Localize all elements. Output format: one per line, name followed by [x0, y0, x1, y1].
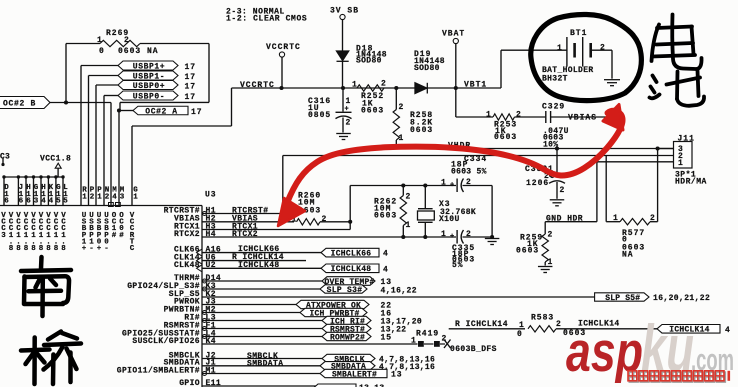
svg-text:0603 5%: 0603 5%	[451, 168, 487, 177]
wire	[426, 83, 428, 94]
svg-text:NA: NA	[622, 251, 634, 260]
svg-text:asp: asp	[566, 320, 643, 384]
wire R577.1 drop	[605, 156, 607, 222]
wire	[202, 343, 418, 345]
net flag SMBDATA	[320, 362, 375, 370]
wire	[424, 343, 434, 345]
wire SLP_S5 long wire	[202, 296, 595, 298]
svg-text:VCC1.8: VCC1.8	[61, 212, 66, 253]
svg-text:R583: R583	[531, 314, 554, 323]
wire	[395, 88, 397, 110]
junction	[454, 86, 458, 90]
svg-text:0603 NA: 0603 NA	[118, 47, 159, 56]
svg-text:R1: R1	[82, 187, 87, 202]
wire USBP0+ to chip	[95, 85, 97, 206]
power symbol VCCRTC	[279, 52, 284, 57]
wire USBP0- to chip	[103, 96, 105, 206]
wire	[418, 208, 433, 210]
wire	[658, 148, 674, 150]
net flag ATXPOWER_OK	[296, 300, 369, 308]
wire	[202, 229, 350, 231]
wire	[342, 118, 344, 133]
wire J11 pin1 wire	[597, 161, 674, 163]
svg-text:GPIO11/SMBALERT#: GPIO11/SMBALERT#	[117, 366, 200, 375]
resistor R258	[393, 110, 399, 141]
wire R577.2 riser	[657, 149, 659, 222]
bus junction	[47, 175, 50, 178]
svg-text:VCCRTC: VCCRTC	[130, 212, 135, 253]
wire GND_HDR wire	[545, 221, 597, 223]
svg-text:R269: R269	[106, 29, 129, 38]
wire	[202, 280, 322, 282]
wire	[463, 236, 493, 238]
resistor R583	[528, 326, 556, 332]
svg-text:J16: J16	[19, 184, 24, 206]
svg-text:GPIO: GPIO	[179, 379, 200, 387]
svg-text:M3: M3	[120, 187, 125, 202]
wire	[456, 230, 458, 244]
wire VCC1.8 pin drop	[62, 177, 64, 206]
svg-text:2: 2	[322, 215, 328, 224]
svg-text:2: 2	[548, 231, 554, 240]
diode D19	[415, 83, 427, 94]
svg-text:R ICHCLK14: R ICHCLK14	[455, 320, 508, 329]
svg-text:C3: C3	[0, 153, 10, 162]
net flag SMBALERT#	[320, 369, 387, 377]
wire	[202, 252, 321, 254]
junction	[401, 183, 405, 187]
diode D18	[337, 51, 349, 61]
wire RTCRST# riser	[282, 156, 284, 214]
svg-text:VBAT: VBAT	[442, 30, 465, 39]
wire	[202, 221, 294, 223]
wire	[596, 162, 598, 222]
wire USBP0- wire	[104, 95, 118, 97]
wire	[606, 221, 620, 223]
wire	[545, 111, 547, 123]
wire	[120, 101, 209, 103]
wire VHDR rail	[396, 148, 673, 150]
wire	[119, 102, 121, 110]
svg-text:BT1: BT1	[570, 29, 587, 38]
wire	[202, 213, 283, 215]
wire RTCX1 riser	[349, 186, 351, 230]
svg-text:1: 1	[557, 44, 563, 53]
junction	[423, 235, 427, 239]
junction	[401, 235, 405, 239]
svg-text:VCC1.8: VCC1.8	[40, 155, 71, 164]
svg-text:16,20,21,22: 16,20,21,22	[653, 294, 710, 303]
wire	[544, 222, 546, 234]
svg-text:RTCX2: RTCX2	[174, 230, 200, 239]
wire	[395, 140, 397, 149]
resistor R269	[100, 40, 140, 46]
red annotation curve with arrowheads	[287, 111, 623, 203]
svg-text:4: 4	[383, 265, 389, 274]
svg-text:1: 1	[441, 230, 447, 239]
svg-text:13: 13	[391, 371, 403, 380]
wire	[556, 182, 558, 199]
wire OC#2_A to pin M3	[118, 111, 120, 206]
svg-text:R260: R260	[298, 192, 321, 201]
wire	[281, 57, 283, 88]
svg-text:17: 17	[185, 82, 197, 91]
svg-text:U3: U3	[205, 191, 217, 200]
net flag ICHCLK66	[321, 248, 379, 257]
bus junction	[2, 175, 5, 178]
svg-text:USBP1-: USBP1-	[89, 212, 94, 253]
wire	[202, 336, 322, 338]
svg-text:D16: D16	[4, 184, 9, 206]
svg-text:15: 15	[381, 333, 393, 342]
net flag USBP0+	[118, 81, 178, 90]
wire	[337, 60, 349, 62]
wire	[140, 43, 209, 45]
svg-text:G13: G13	[34, 184, 39, 206]
wire	[544, 262, 546, 266]
ground R259	[538, 266, 553, 268]
watermark aspku.com	[566, 311, 734, 385]
ground C316	[336, 133, 351, 135]
svg-text:X10U: X10U	[439, 215, 460, 224]
svg-text:VCC1.8: VCC1.8	[54, 212, 59, 253]
svg-text:SLP S3#: SLP S3#	[327, 286, 363, 295]
svg-text:VBT1: VBT1	[464, 81, 487, 90]
svg-text:H16: H16	[26, 184, 31, 206]
svg-text:P2: P2	[90, 187, 95, 202]
net flag SMBCLK	[322, 354, 375, 362]
resistor R259	[542, 234, 548, 262]
svg-text:ROMWP2#: ROMWP2#	[330, 333, 365, 342]
svg-text:2: 2	[600, 44, 606, 53]
junction	[1, 163, 4, 166]
net flag ICHCLK14	[657, 325, 720, 334]
watermark chinese tagline (drawn blocks)	[629, 372, 725, 382]
net flag OC#2_A	[133, 106, 188, 115]
wire	[342, 61, 344, 88]
svg-text:M4: M4	[112, 187, 117, 202]
svg-text:SOD80: SOD80	[356, 57, 382, 66]
wire	[202, 328, 322, 330]
svg-text:VBIAS: VBIAS	[568, 114, 597, 123]
svg-text:4: 4	[383, 250, 389, 259]
wire	[556, 328, 657, 330]
resistor R260	[297, 219, 321, 225]
svg-text:0603: 0603	[516, 246, 539, 255]
wire U3 right edge	[201, 206, 203, 387]
net flag ROMWP2#	[322, 332, 371, 340]
wire VCC1.8 pin drop	[55, 177, 57, 206]
svg-text:USBP0+: USBP0+	[133, 82, 165, 91]
wire	[208, 44, 210, 103]
wire	[449, 328, 525, 330]
bus junction	[54, 175, 57, 178]
svg-text:G1: G1	[133, 187, 138, 202]
wire	[402, 186, 404, 196]
svg-text:0603B_DFS: 0603B_DFS	[450, 345, 497, 354]
wire RTCX2 / crystal bottom rail	[202, 236, 456, 238]
svg-text:1: 1	[548, 258, 554, 267]
svg-text:OC0#: OC0#	[119, 212, 124, 240]
bus junction	[17, 175, 20, 178]
wire	[202, 365, 320, 367]
hand-written character 桥 (bridge)	[21, 332, 81, 385]
net flag USBP1-	[118, 71, 178, 80]
wire	[424, 222, 426, 237]
svg-text:VCC1.8: VCC1.8	[24, 212, 29, 253]
wire VCC1.8 pin drop	[25, 177, 27, 206]
net flag ICHCLK48	[321, 264, 379, 273]
svg-text:VCC1.8: VCC1.8	[16, 212, 21, 253]
svg-text:SUSCLK/GPIO26: SUSCLK/GPIO26	[132, 337, 200, 346]
wire	[463, 185, 493, 187]
wire	[440, 343, 445, 345]
wire	[402, 226, 404, 238]
svg-text:1: 1	[486, 110, 492, 119]
net flag SLP_S5#	[595, 293, 649, 301]
svg-text:VCC1.8: VCC1.8	[9, 212, 14, 253]
svg-text:ICHCLK66: ICHCLK66	[331, 250, 372, 259]
wire crystal gnd riser	[491, 186, 493, 238]
svg-text:VCC3: VCC3	[1, 212, 6, 240]
hand-written character 南 (south)	[21, 257, 71, 316]
wire	[591, 49, 612, 51]
partial flag bottom edge	[314, 384, 356, 387]
net flag OC#2_B	[0, 97, 50, 109]
wire	[202, 267, 321, 269]
wire	[57, 168, 59, 177]
wire VCC1.8 pin drop	[17, 177, 19, 206]
svg-text:2: 2	[346, 119, 352, 128]
svg-text:1: 1	[399, 134, 405, 143]
wire	[418, 221, 433, 223]
resistor R577	[620, 219, 650, 225]
svg-text:1: 1	[352, 81, 358, 90]
svg-text:G15: G15	[56, 184, 61, 206]
wire to battery pin1	[501, 49, 567, 51]
wire	[573, 43, 576, 58]
svg-text:0: 0	[99, 47, 105, 56]
svg-text:SLP S5#: SLP S5#	[605, 294, 640, 303]
net flag USBP0-	[118, 91, 178, 100]
svg-text:0603: 0603	[361, 107, 384, 116]
net flag SLP_S3#	[320, 285, 367, 293]
red arrowhead lower-left	[278, 198, 305, 226]
junction	[490, 235, 494, 239]
wire VCC1.8 pin drop	[40, 177, 42, 206]
svg-text:0603: 0603	[374, 211, 397, 220]
svg-text:HDR/MA: HDR/MA	[675, 178, 707, 187]
svg-text:H14: H14	[41, 184, 46, 206]
bus junction	[61, 175, 64, 178]
wire	[456, 179, 458, 193]
power symbol 3V_SB	[340, 14, 345, 19]
svg-text:VCC1.8: VCC1.8	[46, 212, 51, 253]
wire	[456, 116, 493, 118]
junction	[64, 100, 68, 104]
wire	[2, 158, 4, 165]
svg-text:P1: P1	[97, 187, 102, 202]
svg-text:USBP1+: USBP1+	[82, 212, 87, 253]
svg-text:17: 17	[185, 73, 197, 82]
wire VCCRTC to pin G1	[131, 126, 133, 206]
svg-text:2: 2	[516, 110, 522, 119]
wire USBP1- to chip	[88, 76, 90, 206]
hand-written character 池 (pool)	[650, 71, 705, 106]
wire	[202, 304, 296, 306]
svg-text:USBP0-: USBP0-	[104, 212, 109, 253]
bus junction	[39, 175, 42, 178]
svg-text:1: 1	[441, 178, 447, 187]
resistor R262	[400, 196, 406, 226]
wire VCCRTC/VBT1 rail	[232, 87, 502, 89]
svg-text:VCC1.8: VCC1.8	[39, 212, 44, 253]
svg-text:SOD80: SOD80	[414, 64, 440, 73]
wire	[202, 385, 318, 387]
power symbol VBAT	[453, 38, 458, 43]
svg-text:2: 2	[381, 80, 387, 89]
wire	[202, 312, 300, 314]
svg-text:3V SB: 3V SB	[330, 7, 359, 16]
wire	[202, 288, 320, 290]
svg-text:2: 2	[560, 186, 566, 195]
resistor R252	[357, 85, 384, 91]
wire USBP1+ wire	[81, 65, 118, 67]
svg-text:R419: R419	[416, 330, 439, 339]
svg-text:+: +	[450, 233, 455, 241]
pin squares	[109, 203, 114, 207]
wire	[231, 88, 233, 126]
wire VCC1.8 bus	[4, 176, 63, 178]
wire	[202, 373, 320, 375]
wire	[582, 37, 584, 67]
power symbol VCC1.8	[55, 163, 61, 168]
svg-text:OC#2 A: OC#2 A	[145, 107, 177, 116]
hand-drawn black circle around battery	[531, 14, 642, 100]
svg-text:4: 4	[725, 326, 731, 335]
svg-text:1: 1	[406, 221, 412, 230]
hand-written character 电 (battery)	[652, 15, 702, 70]
svg-text:0603: 0603	[410, 126, 433, 135]
wire OC#2_B to pin M4	[110, 103, 112, 206]
svg-text:1: 1	[678, 159, 684, 168]
svg-text:USBP0+: USBP0+	[97, 212, 102, 253]
ground C330	[550, 199, 565, 201]
resistor R253	[493, 114, 515, 120]
svg-text:2: 2	[556, 320, 562, 329]
svg-text:BH32T: BH32T	[542, 74, 568, 83]
svg-text:N2: N2	[105, 187, 110, 202]
wire VCC1.8 pin drop	[3, 177, 5, 206]
wire VCC1.8 pin drop	[47, 177, 49, 206]
ground battery	[604, 79, 620, 81]
wire	[350, 185, 456, 187]
net flag ICH_RI#	[322, 316, 371, 324]
svg-text:L15: L15	[63, 184, 68, 206]
svg-text:0: 0	[517, 330, 523, 339]
svg-text:17: 17	[185, 63, 197, 72]
svg-text:17: 17	[191, 108, 203, 117]
junction	[117, 108, 121, 112]
net flag RSMRST#	[322, 324, 371, 332]
net flag OVER_TEMP#	[322, 277, 375, 286]
X no-stuff mark	[444, 340, 451, 349]
svg-text:OC#2 B: OC#2 B	[3, 100, 36, 109]
net flag USBP1+	[118, 61, 178, 70]
svg-text:17: 17	[185, 93, 197, 102]
net flag ICH_PWRBT#	[300, 308, 367, 316]
wire	[549, 175, 565, 177]
wire 3V_SB to D18	[342, 20, 344, 51]
svg-text:SMBDATA: SMBDATA	[247, 359, 283, 368]
svg-text:1: 1	[613, 214, 619, 223]
svg-text:USBP1+: USBP1+	[133, 62, 165, 71]
wire	[132, 125, 232, 127]
junction	[341, 86, 345, 90]
wire	[556, 149, 558, 176]
svg-text:VCC1.8: VCC1.8	[31, 212, 36, 253]
wire	[202, 320, 322, 322]
wire USBP1+ to chip	[80, 66, 82, 206]
wire	[336, 111, 352, 113]
wire	[202, 358, 322, 360]
wire VCC1.8 pin drop	[33, 177, 35, 206]
svg-text:2: 2	[399, 103, 405, 112]
wire	[65, 44, 67, 103]
bus junction	[32, 175, 35, 178]
svg-text:1206: 1206	[526, 179, 549, 188]
wire	[566, 37, 568, 67]
svg-text:5%: 5%	[452, 261, 464, 270]
svg-text:USBP0-: USBP0-	[133, 92, 165, 101]
wire VBAT drop	[455, 44, 457, 88]
junction	[394, 86, 398, 90]
wire	[455, 88, 457, 117]
svg-text:1: 1	[519, 321, 525, 330]
svg-text:0603: 0603	[494, 133, 517, 142]
wire VBT1 riser	[500, 50, 502, 88]
wire	[342, 88, 344, 112]
svg-text:C329: C329	[542, 103, 565, 112]
wire	[515, 116, 546, 118]
svg-text:CLK48: CLK48	[174, 261, 200, 270]
svg-text:1-2: CLEAR CMOS: 1-2: CLEAR CMOS	[226, 15, 307, 24]
wire	[589, 43, 592, 58]
junction	[555, 146, 559, 150]
junction	[348, 220, 352, 224]
wire	[611, 50, 613, 78]
wire	[550, 111, 552, 123]
wire	[424, 186, 426, 209]
bus junction	[24, 175, 27, 178]
svg-text:OC1#: OC1#	[112, 212, 117, 240]
ground crystal	[485, 238, 500, 240]
svg-text:+: +	[450, 182, 455, 190]
svg-text:ICHCLK48: ICHCLK48	[331, 265, 372, 274]
wire	[119, 110, 133, 112]
junction	[656, 146, 660, 150]
svg-text:0805: 0805	[308, 111, 331, 120]
svg-text:SMBALERT#: SMBALERT#	[332, 370, 377, 379]
red arrowhead upper-right (barb)	[603, 105, 623, 131]
svg-text:2: 2	[406, 192, 412, 201]
wire USBP0+ wire	[96, 84, 118, 86]
wire	[320, 221, 350, 223]
wire VBIAS wire	[551, 116, 612, 118]
svg-text:K14: K14	[49, 184, 54, 206]
junction	[423, 183, 427, 187]
svg-text:VCCRTC: VCCRTC	[266, 43, 301, 52]
